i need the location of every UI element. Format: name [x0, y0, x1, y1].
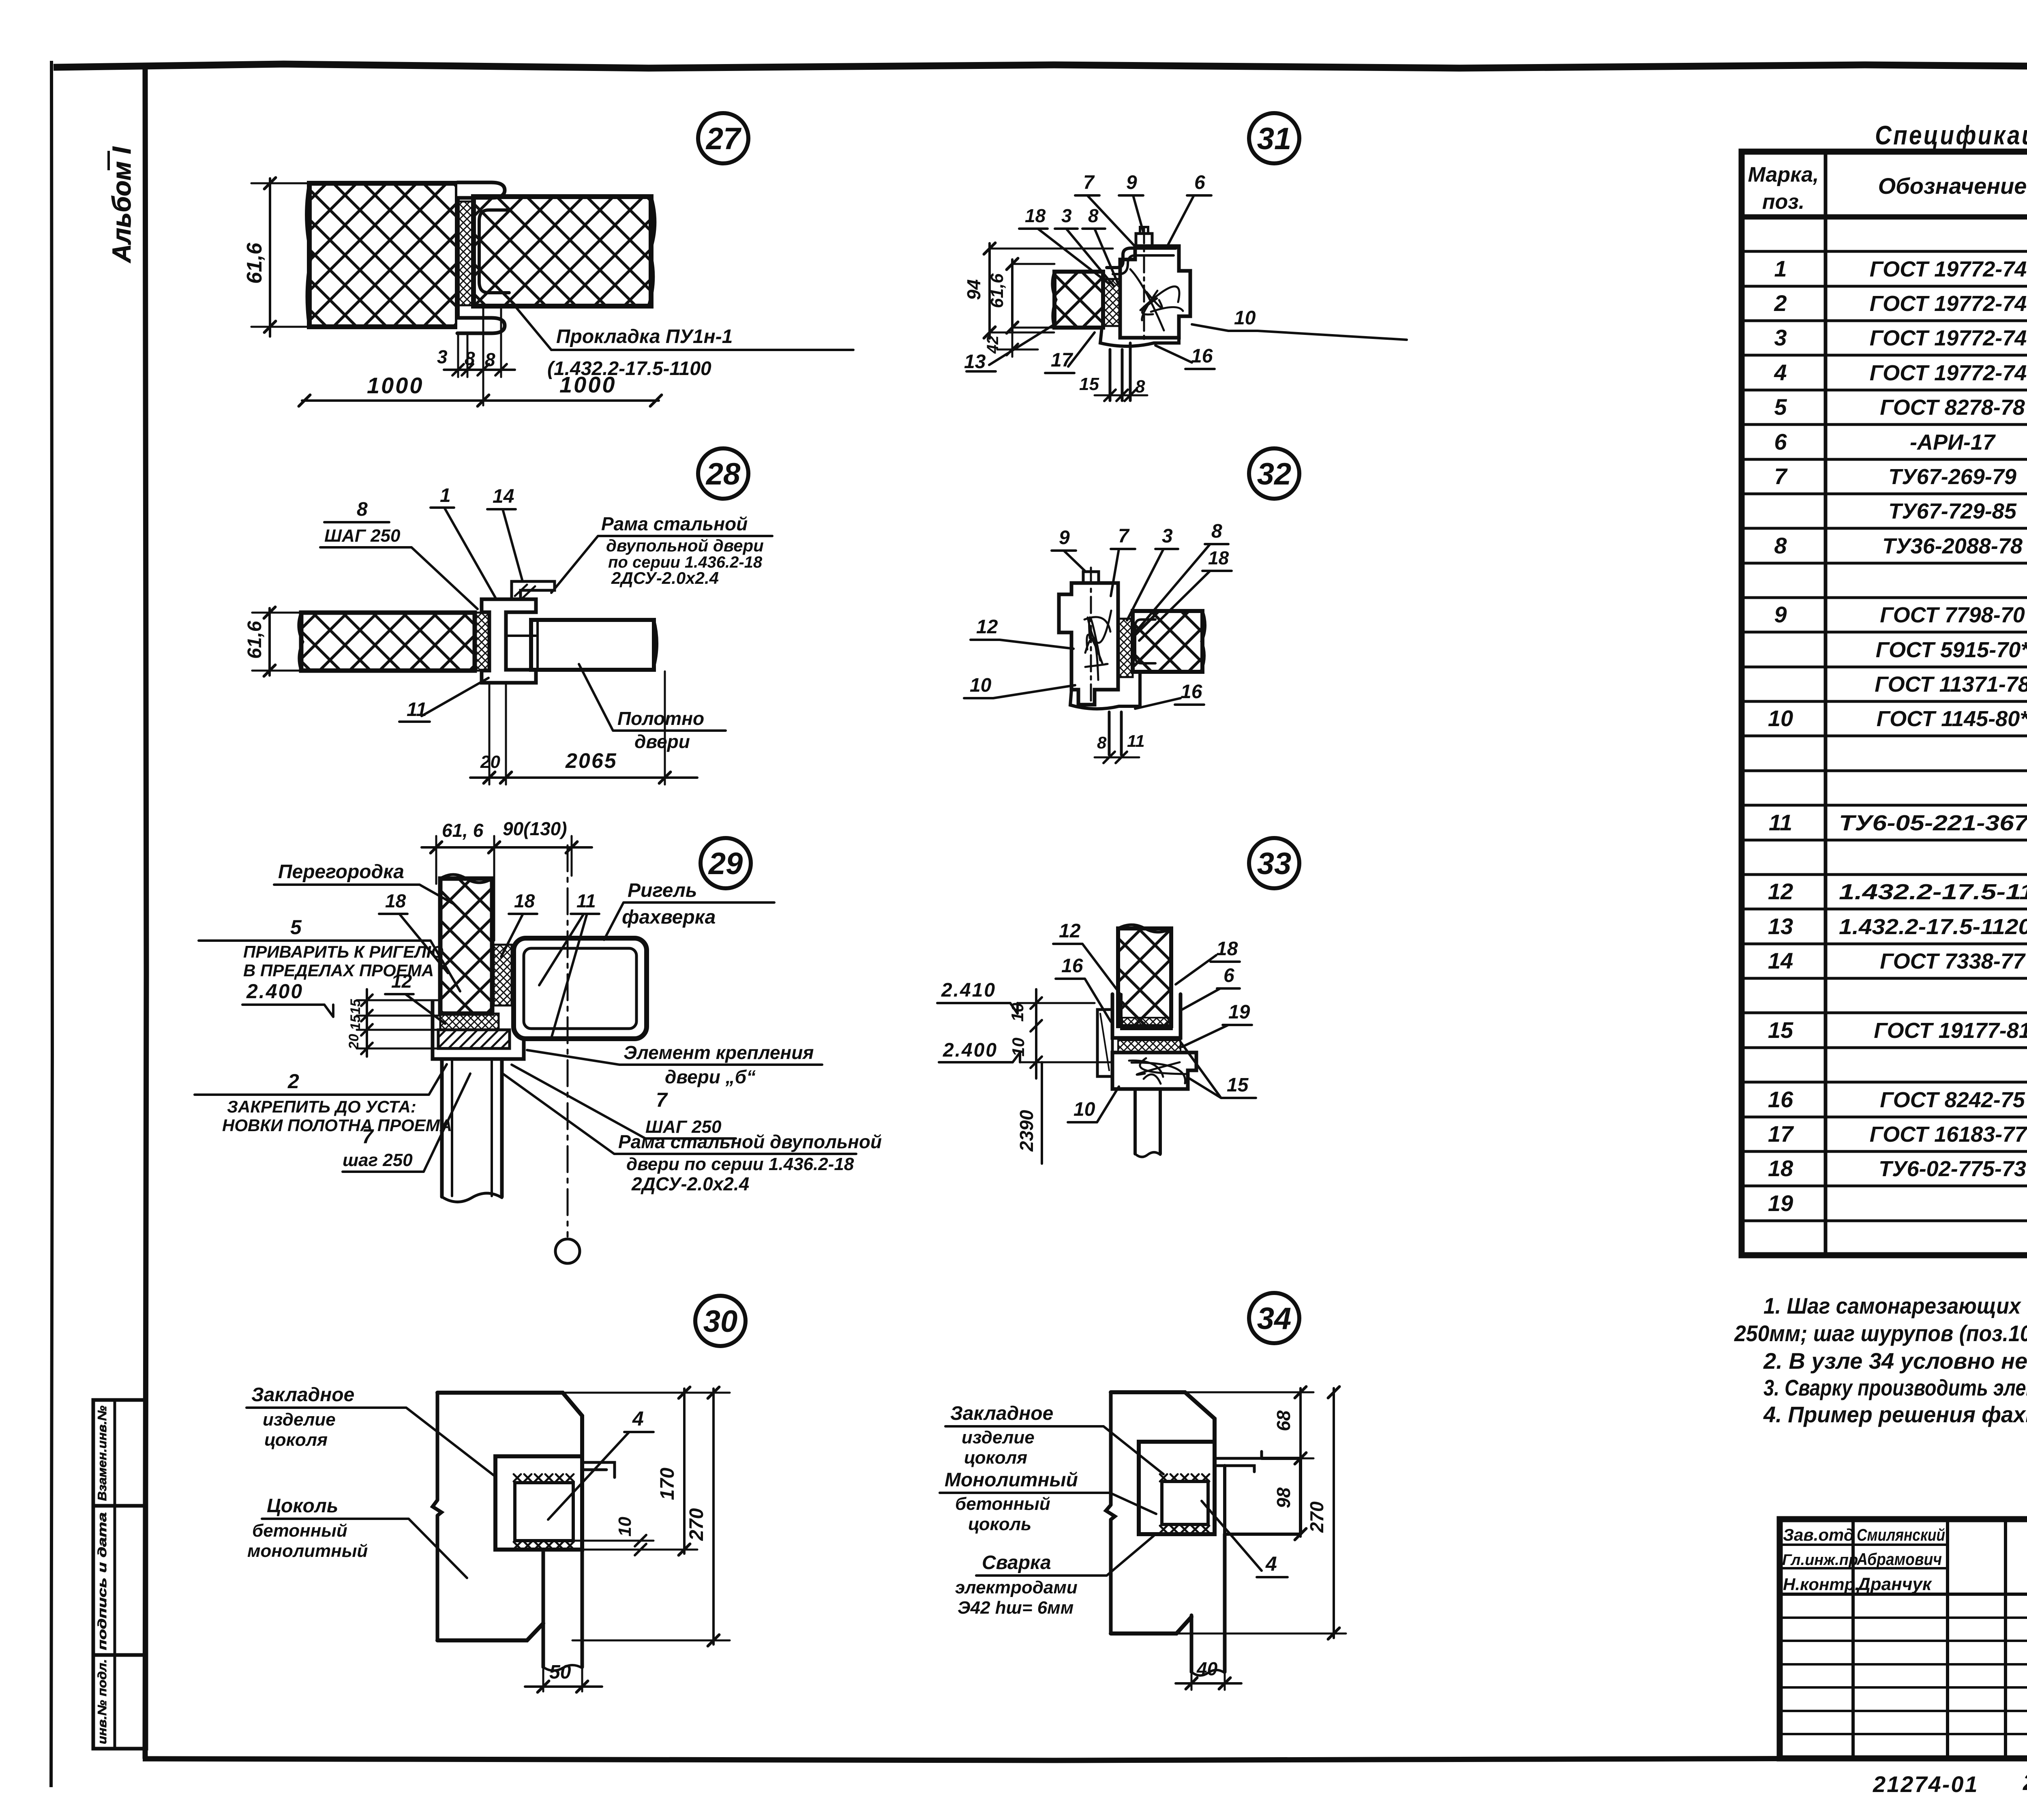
- dim 42 node31: [984, 328, 1038, 357]
- angle bracket node28: [512, 581, 555, 599]
- label 16 node33: [1056, 955, 1111, 1022]
- svg-text:2390: 2390: [1016, 1110, 1037, 1152]
- bolt node32: [1083, 568, 1099, 705]
- svg-text:3: 3: [1162, 525, 1173, 547]
- svg-text:6: 6: [1194, 172, 1205, 193]
- svg-text:Марка,: Марка,: [1748, 163, 1819, 187]
- svg-text:170: 170: [657, 1468, 678, 1500]
- level 2.410 node33: [937, 980, 1095, 1014]
- svg-text:-АРИ-17: -АРИ-17: [1910, 430, 1996, 454]
- svg-text:18: 18: [1216, 938, 1238, 960]
- svg-text:ЗАКРЕПИТЬ ДО УСТА:: ЗАКРЕПИТЬ ДО УСТА:: [227, 1097, 416, 1116]
- dim 8 11 bottom node32: [1095, 731, 1145, 763]
- left main frame line: [145, 66, 146, 1759]
- svg-text:14: 14: [1768, 948, 1793, 973]
- svg-text:90(130): 90(130): [503, 818, 567, 839]
- anchor angle node34: [1215, 1451, 1262, 1472]
- weld x marks node34: [1160, 1474, 1209, 1533]
- svg-text:270: 270: [1306, 1501, 1327, 1533]
- gasket strip node29: [494, 945, 512, 1005]
- svg-text:50: 50: [549, 1661, 571, 1683]
- label 13 node31: [964, 324, 1054, 373]
- screws below node31: [1110, 343, 1130, 401]
- detail 27 bubble: [698, 113, 748, 163]
- svg-text:17: 17: [1051, 349, 1073, 371]
- svg-text:15: 15: [1768, 1017, 1793, 1043]
- right box node34: [1225, 1458, 1301, 1534]
- NOTES: [1734, 1293, 2027, 1427]
- svg-text:8: 8: [1097, 733, 1107, 752]
- fixing element hatch node29: [438, 1030, 510, 1048]
- label 16 node31: [1155, 345, 1215, 369]
- gasket PU1n node27: [458, 202, 473, 305]
- svg-text:29 копировал: Д: 29 копировал: Д: [2023, 1769, 2027, 1795]
- dim 2390 node33: [1016, 1062, 1042, 1164]
- svg-text:11: 11: [407, 699, 427, 720]
- label 15 node33: [1181, 1042, 1256, 1098]
- dim 20 2065 node28: [470, 671, 697, 785]
- channel gasket node33: [1122, 1018, 1171, 1029]
- concrete outline node34: [1106, 1392, 1215, 1633]
- detail 30 bubble: [695, 1296, 746, 1346]
- svg-text:1.432.2-17.5-1120-01: 1.432.2-17.5-1120-01: [1839, 915, 2027, 939]
- svg-text:Сварка: Сварка: [982, 1552, 1051, 1573]
- svg-text:2: 2: [1774, 290, 1787, 316]
- DETAIL 32: [964, 448, 1299, 763]
- label prokladka node27: [516, 307, 853, 379]
- svg-text:7: 7: [1118, 525, 1130, 547]
- level 2.400 node33: [939, 1040, 1112, 1062]
- gasket strip2 node33: [1118, 1040, 1181, 1053]
- svg-text:Э42 hш= 6мм: Э42 hш= 6мм: [958, 1598, 1073, 1618]
- SPEC TABLE: [1742, 120, 2027, 1255]
- svg-text:4: 4: [1265, 1552, 1277, 1575]
- svg-text:15: 15: [348, 1014, 363, 1030]
- svg-text:ГОСТ 16183-77*: ГОСТ 16183-77*: [1870, 1122, 2027, 1147]
- architrave node31: [1100, 328, 1179, 346]
- dim 40 node34: [1176, 1537, 1241, 1690]
- svg-text:2ДСУ-2.0х2.4: 2ДСУ-2.0х2.4: [631, 1173, 749, 1194]
- svg-text:1.432.2-17.5-1100: 1.432.2-17.5-1100: [1839, 880, 2027, 904]
- svg-text:ГОСТ 19772-74*: ГОСТ 19772-74*: [1870, 326, 2027, 350]
- left columns verticals: [1780, 1519, 2027, 1758]
- dim 270 node34: [1176, 1387, 1346, 1639]
- dim 3-8-8 node27: [437, 307, 515, 405]
- head channel outline node29: [433, 1001, 524, 1059]
- svg-text:17: 17: [1768, 1121, 1794, 1147]
- svg-text:13: 13: [1768, 913, 1793, 939]
- DETAIL 34: [940, 1293, 1346, 1690]
- gasket node31: [1103, 279, 1120, 326]
- right wall panel node27: [474, 197, 655, 306]
- detail 29 bubble: [701, 838, 751, 888]
- svg-text:ГОСТ 7798-70: ГОСТ 7798-70: [1880, 603, 2025, 627]
- DETAIL 33: [937, 838, 1299, 1164]
- svg-text:2ДСУ-2.0х2.4: 2ДСУ-2.0х2.4: [611, 568, 719, 587]
- left wall panel node27: [306, 183, 457, 327]
- svg-text:ТУ67-269-79: ТУ67-269-79: [1888, 465, 2016, 489]
- svg-text:98: 98: [1273, 1487, 1294, 1508]
- svg-text:27: 27: [705, 122, 742, 156]
- wall panel node28: [299, 613, 475, 671]
- svg-text:8: 8: [465, 348, 475, 369]
- bottom frame line: [143, 1758, 2027, 1760]
- svg-text:61,6: 61,6: [244, 621, 266, 659]
- svg-text:изделие: изделие: [263, 1410, 336, 1430]
- head gasket fh node29: [440, 1014, 499, 1030]
- svg-text:18: 18: [1208, 547, 1229, 568]
- dim 50 node30: [525, 1553, 602, 1692]
- svg-text:10: 10: [970, 675, 992, 696]
- svg-text:12: 12: [1059, 920, 1081, 942]
- title block outer box: [1780, 1519, 2027, 1758]
- svg-text:61,6: 61,6: [243, 242, 266, 284]
- panel end cap node32: [1135, 620, 1155, 663]
- svg-text:инв.№ подл.: инв.№ подл.: [96, 1659, 109, 1744]
- dim 94 node31: [963, 243, 1113, 339]
- svg-text:7: 7: [656, 1089, 668, 1111]
- wall panel node31: [1052, 272, 1103, 328]
- label 7 shag250 left node29: [343, 1074, 470, 1172]
- svg-text:2.400: 2.400: [246, 980, 303, 1003]
- left panel bottom end cap: [457, 318, 505, 333]
- label 8 shag250 node28: [320, 499, 478, 609]
- wall below node33: [1135, 1089, 1160, 1157]
- svg-text:ГОСТ 19772-74*: ГОСТ 19772-74*: [1870, 361, 2027, 385]
- center line node29: [555, 845, 580, 1263]
- svg-text:ГОСТ 7338-77: ГОСТ 7338-77: [1880, 949, 2026, 973]
- label 4 node34: [1202, 1501, 1288, 1577]
- svg-text:10: 10: [1768, 705, 1793, 731]
- weld x marks node30: [514, 1474, 574, 1549]
- stacked dims 15 15 20 node29: [346, 989, 440, 1057]
- label rama stalnoy node28: [551, 513, 772, 593]
- svg-text:Полотно: Полотно: [617, 708, 704, 729]
- left panel top end cap: [457, 182, 505, 198]
- detail 31 bubble: [1249, 113, 1299, 163]
- svg-text:3. Сварку производить электро: 3. Сварку производить электродами типа Э…: [1763, 1375, 2027, 1400]
- svg-text:19: 19: [1768, 1190, 1793, 1216]
- svg-text:12: 12: [391, 971, 412, 992]
- svg-text:Рама стальной: Рама стальной: [601, 513, 748, 534]
- column below node34: [1191, 1534, 1225, 1676]
- label 12 node32: [971, 616, 1073, 649]
- svg-text:Спецификация к схеме располож: Спецификация к схеме расположения перего…: [1875, 120, 2027, 150]
- svg-text:3: 3: [437, 346, 448, 367]
- svg-text:(1.432.2-17.5-1100: (1.432.2-17.5-1100: [547, 358, 711, 379]
- embedded item box node30: [495, 1456, 582, 1550]
- svg-text:бетонный: бетонный: [252, 1521, 347, 1541]
- label 12 node29: [385, 971, 445, 1024]
- detail 33 bubble: [1249, 838, 1299, 888]
- svg-text:10: 10: [615, 1517, 635, 1537]
- dim 10 node30: [573, 1517, 654, 1555]
- svg-text:34: 34: [1257, 1301, 1292, 1336]
- svg-text:ГОСТ 5915-70*: ГОСТ 5915-70*: [1876, 638, 2027, 662]
- svg-text:1: 1: [440, 485, 451, 506]
- svg-text:61, 6: 61, 6: [442, 820, 484, 841]
- door frame wood node31: [1120, 246, 1190, 338]
- svg-text:11: 11: [1127, 731, 1145, 750]
- svg-text:цоколя: цоколя: [264, 1430, 328, 1450]
- svg-text:монолитный: монолитный: [247, 1541, 368, 1561]
- svg-text:5: 5: [1774, 394, 1787, 420]
- svg-text:18: 18: [385, 890, 406, 911]
- svg-text:ГОСТ 19177-81: ГОСТ 19177-81: [1874, 1018, 2027, 1043]
- svg-text:Альбом І: Альбом І: [107, 146, 136, 264]
- label 10 node31: [1192, 307, 1407, 340]
- svg-text:8: 8: [1211, 521, 1222, 542]
- label 11 node29: [539, 890, 599, 1038]
- svg-text:10: 10: [1009, 1038, 1028, 1057]
- dim 170 node30: [563, 1387, 730, 1555]
- label svarka node34: [955, 1536, 1154, 1618]
- svg-text:Зав.отд: Зав.отд: [1783, 1525, 1854, 1544]
- svg-text:28: 28: [705, 457, 741, 491]
- label 19 node33: [1182, 1001, 1252, 1047]
- top border line: [54, 64, 2027, 71]
- svg-text:бетонный: бетонный: [955, 1494, 1050, 1514]
- svg-text:13: 13: [964, 351, 986, 373]
- label element krepleniya node29: [527, 1042, 822, 1087]
- svg-text:двупольной двери: двупольной двери: [606, 536, 764, 555]
- svg-text:7: 7: [1774, 463, 1788, 489]
- svg-text:двери: двери: [634, 731, 690, 752]
- dim 61.6 node27: [243, 178, 309, 337]
- svg-text:ПРИВАРИТЬ К РИГЕЛЮ: ПРИВАРИТЬ К РИГЕЛЮ: [243, 942, 444, 961]
- svg-text:9: 9: [1126, 172, 1137, 193]
- svg-text:ГОСТ 1145-80*: ГОСТ 1145-80*: [1877, 707, 2027, 731]
- label 17 node31: [1045, 332, 1095, 373]
- detail 34 bubble: [1249, 1293, 1299, 1343]
- svg-text:Н.контр.: Н.контр.: [1783, 1575, 1860, 1594]
- svg-text:68: 68: [1273, 1410, 1294, 1431]
- dim 15 8 bottom node31: [1079, 374, 1147, 401]
- svg-text:94: 94: [963, 279, 984, 300]
- TITLE BLOCK: [1780, 1519, 2027, 1797]
- bolt node31: [1136, 227, 1152, 340]
- svg-text:2: 2: [287, 1070, 299, 1093]
- label zakladnoe node30: [246, 1384, 495, 1477]
- svg-text:Смилянский: Смилянский: [1857, 1525, 1945, 1544]
- gasket node32: [1118, 619, 1133, 677]
- svg-text:9: 9: [1059, 527, 1070, 549]
- svg-text:1000: 1000: [367, 373, 424, 398]
- svg-text:Цоколь: Цоколь: [267, 1495, 338, 1517]
- svg-text:4: 4: [632, 1407, 644, 1430]
- svg-text:4: 4: [1774, 360, 1787, 385]
- label 1 node28: [431, 485, 495, 598]
- partition panel node29: [440, 875, 492, 1014]
- label 6 node33: [1182, 965, 1240, 1010]
- svg-text:6: 6: [1774, 429, 1787, 454]
- table grid: [1742, 152, 2027, 1255]
- svg-text:подпись и дата: подпись и дата: [96, 1512, 109, 1650]
- svg-text:270: 270: [686, 1508, 707, 1541]
- gasket node28: [475, 613, 489, 671]
- svg-text:ТУ67-729-85: ТУ67-729-85: [1888, 499, 2017, 523]
- svg-text:Элемент крепления: Элемент крепления: [624, 1042, 814, 1063]
- label 14 node28: [487, 486, 522, 580]
- svg-text:Рама стальной двупольной: Рама стальной двупольной: [618, 1131, 882, 1152]
- architrave node32: [1070, 673, 1140, 709]
- svg-text:11: 11: [1769, 810, 1792, 835]
- door frame wood node32: [1059, 583, 1118, 705]
- svg-text:3: 3: [1774, 325, 1787, 350]
- dim 61.6 node31: [987, 258, 1054, 333]
- svg-text:21274-01: 21274-01: [1873, 1771, 1979, 1797]
- partition panel node33: [1118, 925, 1171, 1026]
- detail 28 bubble: [698, 448, 748, 499]
- svg-text:11: 11: [576, 890, 596, 911]
- svg-text:ГОСТ 11371-78: ГОСТ 11371-78: [1875, 672, 2027, 697]
- svg-text:20: 20: [480, 752, 500, 772]
- svg-text:ГОСТ 8242-75: ГОСТ 8242-75: [1880, 1088, 2025, 1112]
- label rigel node29: [604, 880, 774, 940]
- small dims 10 10 node33: [1008, 989, 1042, 1078]
- svg-text:ГОСТ 19772-74*: ГОСТ 19772-74*: [1870, 292, 2027, 316]
- svg-text:7: 7: [1083, 172, 1095, 193]
- svg-text:18: 18: [1025, 205, 1046, 226]
- svg-text:8: 8: [1088, 205, 1099, 226]
- labels top node31: [1075, 172, 1135, 247]
- DETAIL 31: [963, 113, 1407, 401]
- svg-text:12: 12: [976, 616, 998, 638]
- svg-text:Абрамович: Абрамович: [1856, 1550, 1942, 1569]
- label monolitny node34: [940, 1469, 1156, 1534]
- label polotno dveri node28: [579, 664, 726, 752]
- svg-text:Монолитный: Монолитный: [945, 1469, 1078, 1491]
- svg-text:16: 16: [1181, 681, 1202, 703]
- wall panel node32: [1133, 611, 1205, 672]
- svg-text:10: 10: [1008, 1003, 1027, 1022]
- svg-text:ШАГ 250: ШАГ 250: [324, 526, 401, 546]
- label 16 node32: [1135, 681, 1204, 709]
- label 7 shag250 right node29: [512, 1065, 736, 1138]
- svg-text:ТУ36-2088-78: ТУ36-2088-78: [1882, 534, 2023, 558]
- svg-text:Перегородка: Перегородка: [278, 861, 404, 883]
- svg-text:15: 15: [1079, 374, 1099, 394]
- label 4 node30: [548, 1407, 654, 1520]
- rigel tube node29: [514, 938, 647, 1039]
- svg-text:Закладное: Закладное: [251, 1384, 354, 1406]
- svg-text:12: 12: [1768, 879, 1793, 904]
- label 2 zakrepit node29: [195, 1064, 452, 1135]
- stamp box column: [93, 1400, 146, 1749]
- left packing strip node33: [1097, 1010, 1112, 1076]
- DETAIL 29: [195, 818, 882, 1263]
- svg-text:Прокладка ПУ1н-1: Прокладка ПУ1н-1: [556, 326, 733, 347]
- svg-text:8: 8: [1774, 533, 1787, 558]
- DETAIL 27: [243, 113, 853, 406]
- svg-text:42: 42: [984, 336, 1002, 354]
- svg-text:250мм; шаг шурупов (поз.10)-: 250мм; шаг шурупов (поз.10)- 200мм.: [1734, 1321, 2027, 1346]
- detail 32 bubble: [1249, 448, 1299, 499]
- label 18 node33: [1176, 938, 1240, 984]
- svg-text:2.400: 2.400: [943, 1040, 998, 1061]
- svg-text:Дранчук: Дранчук: [1856, 1574, 1933, 1594]
- door jamb below node29: [442, 1059, 502, 1202]
- svg-text:Обозначение: Обозначение: [1878, 173, 2027, 199]
- svg-text:15: 15: [348, 999, 363, 1014]
- svg-text:8: 8: [485, 349, 495, 370]
- U channel node33: [1112, 994, 1181, 1038]
- level 2.400 node29: [242, 980, 333, 1017]
- svg-text:3: 3: [1061, 205, 1072, 226]
- svg-text:9: 9: [1774, 602, 1787, 627]
- svg-text:Закладное: Закладное: [950, 1403, 1053, 1424]
- svg-text:Ригель: Ригель: [628, 880, 697, 901]
- svg-text:6: 6: [1223, 965, 1234, 986]
- svg-text:шаг 250: шаг 250: [343, 1150, 413, 1170]
- svg-text:НОВКИ ПОЛОТНА ПРОЕМА: НОВКИ ПОЛОТНА ПРОЕМА: [222, 1116, 452, 1135]
- svg-text:ГОСТ 19772-74*: ГОСТ 19772-74*: [1870, 257, 2027, 281]
- svg-text:ГОСТ 8278-78: ГОСТ 8278-78: [1880, 395, 2025, 420]
- svg-text:31: 31: [1257, 122, 1292, 156]
- svg-text:поз.: поз.: [1762, 190, 1805, 214]
- embedded box node34: [1139, 1442, 1215, 1534]
- svg-text:61,6: 61,6: [987, 273, 1007, 308]
- svg-text:ТУ6-02-775-73: ТУ6-02-775-73: [1879, 1157, 2026, 1181]
- svg-text:18: 18: [514, 890, 535, 911]
- top flange node31: [1107, 248, 1176, 274]
- svg-text:ТУ6-05-221-367-76: ТУ6-05-221-367-76: [1839, 811, 2027, 835]
- svg-text:40: 40: [1196, 1658, 1218, 1679]
- svg-text:цоколя: цоколя: [964, 1448, 1027, 1468]
- dim 61.6 node28: [244, 607, 301, 676]
- label 12 node33: [1053, 920, 1120, 993]
- label 18 right node29: [501, 890, 537, 957]
- svg-text:29: 29: [708, 847, 743, 881]
- frame wood node33: [1112, 1053, 1196, 1089]
- door frame profile node28: [482, 599, 536, 683]
- dim 68 98 node34: [1185, 1387, 1313, 1540]
- svg-text:2. В узле 34 условно не показ: 2. В узле 34 условно не показаны панели …: [1763, 1348, 2027, 1374]
- label 5 privarit node29: [199, 916, 460, 991]
- svg-text:18: 18: [1768, 1155, 1793, 1181]
- svg-text:фахверка: фахверка: [622, 907, 716, 928]
- svg-text:1. Шаг самонарезающих винтов: 1. Шаг самонарезающих винтов (поз.7) и к…: [1763, 1293, 2027, 1318]
- svg-text:32: 32: [1257, 457, 1292, 491]
- screws below node32: [1109, 712, 1121, 755]
- svg-text:двери по серии 1.436.2-18: двери по серии 1.436.2-18: [626, 1154, 854, 1174]
- label 18 left node29: [379, 890, 448, 973]
- label 11 node28: [399, 678, 489, 722]
- dim 270 node30: [572, 1387, 730, 1646]
- label 10 node33: [1068, 1087, 1119, 1122]
- left part row lines: [1780, 1543, 1948, 1546]
- svg-text:2.410: 2.410: [941, 980, 996, 1001]
- svg-text:14: 14: [493, 486, 514, 507]
- concrete plinth outline node30: [433, 1393, 582, 1640]
- dim 1000 1000 node27: [299, 372, 662, 406]
- label zakladnoe node34: [945, 1403, 1163, 1474]
- svg-text:16: 16: [1191, 345, 1213, 367]
- svg-text:двери „б“: двери „б“: [665, 1066, 756, 1087]
- svg-text:8: 8: [1135, 377, 1145, 397]
- door leaf node28: [531, 620, 657, 670]
- svg-text:10: 10: [1234, 307, 1256, 329]
- svg-text:8: 8: [357, 499, 368, 520]
- anchor angle node30: [582, 1462, 615, 1477]
- svg-text:16: 16: [1768, 1087, 1793, 1112]
- svg-text:33: 33: [1257, 847, 1292, 881]
- downstand verticals node30: [543, 1550, 582, 1671]
- svg-text:15: 15: [1227, 1074, 1249, 1096]
- svg-text:1: 1: [1774, 256, 1787, 281]
- top dims 61.6 90(130) node29: [422, 818, 592, 941]
- svg-text:Гл.инж.пр: Гл.инж.пр: [1782, 1552, 1858, 1569]
